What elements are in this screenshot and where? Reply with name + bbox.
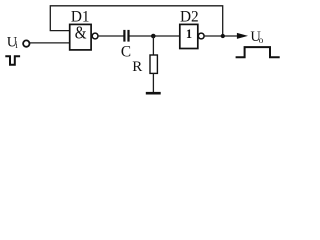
input terminal (circle) [23, 40, 29, 46]
wire capacitor to D2 input [129, 35, 180, 37]
svg-text:1: 1 [186, 27, 192, 41]
junction node (output-feedback) [221, 34, 225, 38]
svg-text:o: o [259, 35, 264, 45]
node Uo label [250, 29, 263, 45]
wire D2 bubble to output arrow [204, 35, 238, 37]
wire Ui terminal to D1 lower input [30, 42, 70, 44]
wire feedback to D1 upper input [50, 30, 70, 32]
junction node (C-R-D2) [151, 34, 156, 39]
wire resistor to ground [152, 73, 154, 92]
wire feedback: D2 output junction up, across top, down to D1 upper input [50, 6, 222, 36]
waveform Uo (wide positive output pulse) [236, 47, 280, 57]
wire D1 bubble to capacitor [98, 35, 124, 37]
D2 output bubble [198, 33, 204, 39]
svg-text:C: C [121, 43, 131, 60]
capacitor C plates [124, 30, 128, 42]
D1 output bubble [92, 33, 98, 39]
svg-text:D2: D2 [180, 8, 199, 25]
svg-text:D1: D1 [71, 8, 90, 25]
resistor R body [150, 55, 157, 73]
gate D2 (inverter) body [180, 24, 198, 48]
ground [146, 92, 161, 95]
gate D1 (NAND) body [70, 24, 91, 50]
waveform Ui (narrow negative trigger pulse) [5, 56, 20, 65]
wire junction down to resistor [152, 36, 154, 56]
svg-text:R: R [132, 59, 142, 75]
node Ui label [7, 35, 18, 51]
svg-text:&: & [75, 23, 87, 43]
output arrowhead [237, 33, 248, 39]
